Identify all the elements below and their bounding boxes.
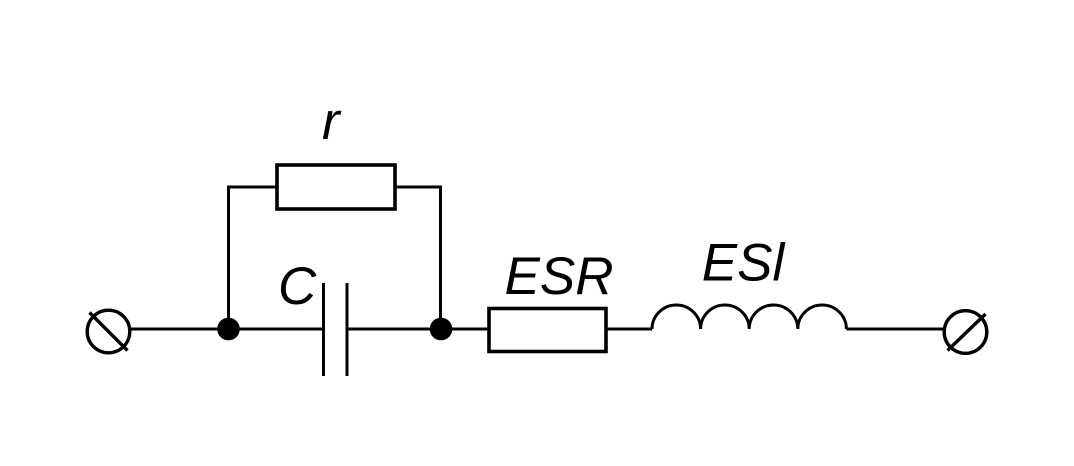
svg-text:r: r [322,92,342,151]
svg-text:ESl: ESl [702,234,786,293]
svg-text:C: C [278,257,317,316]
svg-text:ESR: ESR [505,247,614,306]
